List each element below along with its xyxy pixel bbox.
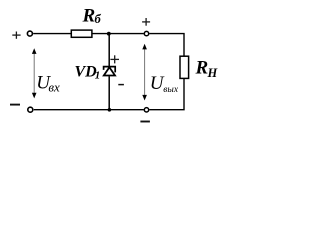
wire top-left segment (33, 33, 71, 35)
resistor Rб body (71, 30, 92, 37)
minus sign input (10, 104, 20, 106)
terminal circle input + (27, 31, 32, 36)
wire zener branch upper (108, 34, 110, 67)
zener diode VD1 cathode bar (104, 67, 116, 73)
voltage arrow Uвх (32, 48, 37, 98)
wire top-middle segment (92, 33, 144, 35)
svg-text:б: б (95, 12, 102, 26)
svg-text:R: R (82, 5, 96, 26)
svg-text:1: 1 (95, 70, 101, 82)
minus sign output bottom (140, 121, 150, 123)
node junction dot bottom (108, 108, 112, 112)
svg-text:вх: вх (48, 79, 60, 94)
svg-text:вых: вых (163, 85, 179, 95)
voltage arrow Uвых (142, 44, 147, 101)
node junction dot top (107, 32, 111, 36)
resistor Rн body (180, 56, 189, 78)
terminal circle output - (144, 108, 148, 112)
plus sign input (12, 32, 20, 39)
wire zener branch lower (108, 76, 110, 110)
svg-text:R: R (195, 58, 209, 79)
wire right-bottom segment with corner (149, 78, 184, 109)
wire bottom-middle segment (34, 109, 144, 111)
plus sign zener (110, 55, 119, 63)
terminal circle output + (144, 31, 148, 35)
minus sign zener (118, 84, 124, 86)
wire top-right segment with corner (149, 34, 184, 57)
svg-text:Н: Н (207, 66, 219, 80)
terminal circle input - (28, 107, 33, 112)
zener diode VD1 triangle (104, 67, 115, 75)
plus sign output top (142, 18, 150, 26)
svg-text:VD: VD (75, 63, 98, 80)
